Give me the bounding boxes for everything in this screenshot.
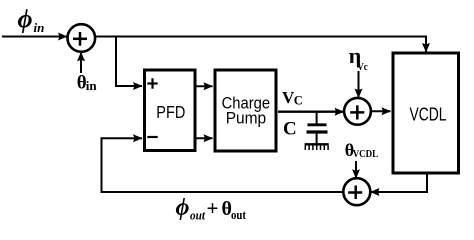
svg-text:ϕ: ϕ [176, 195, 190, 221]
svg-text:in: in [86, 78, 98, 93]
svg-text:Vc: Vc [357, 62, 368, 73]
svg-text:VCDL: VCDL [410, 104, 447, 124]
svg-text:ϕ: ϕ [18, 5, 33, 34]
svg-text:C: C [283, 118, 297, 139]
svg-text:out: out [190, 208, 205, 223]
svg-text:Pump: Pump [226, 109, 267, 128]
svg-text:in: in [34, 20, 45, 35]
svg-text:+: + [207, 196, 219, 220]
svg-text:PFD: PFD [156, 102, 185, 122]
svg-text:out: out [231, 207, 247, 222]
svg-text:C: C [294, 93, 303, 107]
svg-text:VCDL: VCDL [353, 149, 379, 160]
